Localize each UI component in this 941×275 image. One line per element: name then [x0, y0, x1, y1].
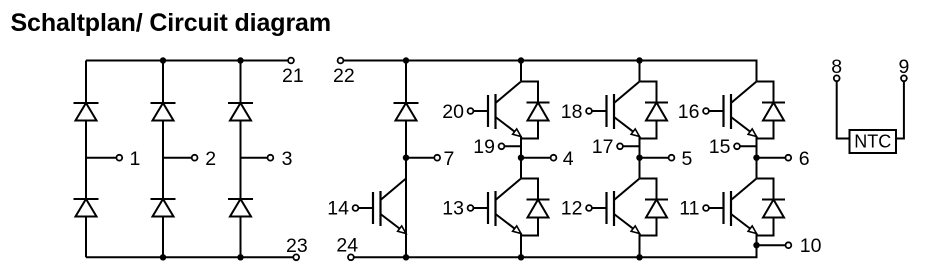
wire node 1 stub [86, 157, 116, 159]
diode D11 (antiparallel) [645, 199, 668, 201]
transistor Q4 (bottom, gate 12) emitter lead with arrow [614, 214, 640, 234]
wire terminal 8 to NTC [837, 81, 850, 138]
junction leg 5 on top bus [636, 57, 642, 63]
transistor Q2 (bottom, gate 13) emitter lead with arrow [496, 214, 522, 234]
svg-text:2: 2 [205, 148, 216, 170]
svg-text:Schaltplan/ Circuit diagram: Schaltplan/ Circuit diagram [11, 9, 331, 37]
terminal 22 [338, 58, 344, 64]
transistor Q6 (bottom, gate 11) gate terminal [703, 205, 709, 211]
wire leg 6 collector drop from top bus [756, 61, 758, 82]
wire aux emitter 15 stub [740, 145, 757, 147]
wire diode D9 anode to emitter jog [521, 218, 538, 236]
NTC thermistor box [850, 130, 897, 153]
terminal node 7 circle [434, 155, 440, 161]
diode D5 (rectifier top, leg 3) [228, 102, 253, 104]
wire collector jog to diode D9 [521, 179, 538, 201]
transistor Q2 (bottom, gate 13) gate terminal [468, 205, 474, 211]
svg-text:18: 18 [561, 101, 583, 123]
wire collector vertical bottom cell leg 5 [639, 158, 641, 178]
junction node 10 [753, 242, 759, 248]
wire collector jog to diode D12 [757, 82, 774, 104]
junction leg 4 on top bus [518, 57, 524, 63]
transistor Q3 (top, gate 18) collector lead [614, 82, 640, 104]
wire collector jog to diode D10 [640, 82, 657, 104]
wire collector jog to diode D13 [757, 179, 774, 201]
wire terminal 9 to NTC [896, 81, 904, 138]
transistor Q2 (bottom, gate 13) gate lead wire [473, 207, 488, 209]
terminal node 10 circle [786, 242, 792, 248]
transistor Q7 (brake, pin 14) gate bar [372, 192, 374, 224]
terminal node 1 circle [116, 155, 122, 161]
transistor Q7 (brake, pin 14) emitter lead with arrow [381, 214, 407, 234]
transistor Q6 (bottom, gate 11) collector lead [731, 179, 757, 201]
junction on top bus leg 2 [160, 57, 166, 63]
svg-text:22: 22 [333, 65, 355, 87]
wire emitter vertical top cell leg 6 [756, 136, 758, 158]
transistor Q4 (bottom, gate 12) gate bar [605, 192, 607, 224]
svg-text:16: 16 [678, 101, 700, 123]
diode D10 (antiparallel) [645, 102, 668, 104]
wire aux emitter 17 stub [623, 145, 640, 147]
junction leg 4 on bottom bus [518, 254, 524, 260]
diode D12 (antiparallel) [762, 102, 785, 104]
svg-text:21: 21 [282, 65, 304, 87]
transistor Q7 (brake, pin 14) gate terminal [353, 205, 359, 211]
wire node 4 stub [521, 157, 551, 159]
wire inverter top bus (DC+) [343, 61, 756, 82]
wire rectifier top bus (+ to terminal 21) [86, 60, 288, 62]
transistor Q3 (top, gate 18) gate terminal [586, 108, 592, 114]
transistor Q1 (top, gate 20) body bar [494, 94, 496, 129]
diode D1 (rectifier top, leg 1) [74, 102, 99, 104]
svg-text:23: 23 [286, 235, 308, 257]
terminal aux emitter 17 circle [617, 143, 623, 149]
transistor Q6 (bottom, gate 11) gate bar [722, 192, 724, 224]
svg-text:5: 5 [682, 148, 693, 170]
wire node 10 stub [757, 244, 786, 246]
wire brake leg vertical [405, 61, 407, 258]
svg-text:8: 8 [831, 56, 842, 78]
junction on bottom bus leg 2 [160, 254, 166, 260]
wire collector vertical bottom cell leg 4 [520, 158, 522, 178]
transistor Q3 (top, gate 18) emitter lead with arrow [614, 117, 640, 137]
terminal 23 [293, 254, 299, 260]
svg-text:11: 11 [679, 198, 699, 220]
transistor Q2 (bottom, gate 13) collector lead [496, 179, 522, 201]
svg-text:6: 6 [799, 148, 810, 170]
svg-text:13: 13 [442, 198, 464, 220]
transistor Q5 (top, gate 16) gate bar [722, 95, 724, 127]
junction node 5 [636, 155, 642, 161]
diode D2 (rectifier bottom, leg 1) [74, 198, 99, 200]
diode D8 (antiparallel) [527, 102, 550, 104]
wire inverter bottom bus (DC-) [354, 245, 757, 257]
svg-text:17: 17 [592, 136, 614, 158]
wire collector jog to diode D8 [521, 82, 538, 104]
transistor Q4 (bottom, gate 12) gate lead wire [592, 207, 607, 209]
diode D13 (antiparallel) [762, 199, 785, 201]
svg-text:9: 9 [898, 56, 909, 78]
terminal aux emitter 15 circle [734, 143, 740, 149]
wire collector jog to diode D11 [640, 179, 657, 201]
terminal 24 [348, 254, 354, 260]
wire diode D12 anode to emitter jog [757, 121, 774, 139]
transistor Q3 (top, gate 18) body bar [613, 94, 615, 129]
wire diode D8 anode to emitter jog [521, 121, 538, 139]
wire node 2 stub [163, 157, 192, 159]
transistor Q4 (bottom, gate 12) collector lead [614, 179, 640, 201]
svg-text:7: 7 [444, 148, 455, 170]
wire diode D11 anode to emitter jog [640, 218, 657, 236]
svg-text:NTC: NTC [854, 132, 891, 152]
svg-text:3: 3 [282, 148, 293, 170]
svg-text:20: 20 [442, 101, 464, 123]
transistor Q1 (top, gate 20) gate terminal [468, 108, 474, 114]
transistor Q5 (top, gate 16) collector lead [731, 82, 757, 104]
transistor Q7 (brake, pin 14) collector lead [381, 179, 407, 201]
transistor Q1 (top, gate 20) gate lead wire [473, 110, 488, 112]
wire emitter vertical bottom cell leg 4 [520, 233, 522, 257]
diode D9 (antiparallel) [527, 199, 550, 201]
terminal node 2 circle [192, 155, 198, 161]
transistor Q5 (top, gate 16) body bar [730, 94, 732, 129]
transistor Q1 (top, gate 20) collector lead [496, 82, 522, 104]
diode D4 (rectifier bottom, leg 2) [151, 198, 176, 200]
junction node 7 [403, 155, 409, 161]
transistor Q5 (top, gate 16) emitter lead with arrow [731, 117, 757, 137]
wire node 6 stub [757, 157, 786, 159]
svg-text:24: 24 [336, 235, 358, 257]
transistor Q1 (top, gate 20) emitter lead with arrow [496, 117, 522, 137]
svg-text:12: 12 [561, 198, 583, 220]
transistor Q6 (bottom, gate 11) emitter lead with arrow [731, 214, 757, 234]
terminal node 3 circle [268, 155, 274, 161]
terminal node 6 circle [785, 155, 791, 161]
junction node 6 [753, 155, 759, 161]
transistor Q4 (bottom, gate 12) gate terminal [586, 205, 592, 211]
wire collector vertical bottom cell leg 6 [756, 158, 758, 178]
wire emitter vertical top cell leg 5 [639, 136, 641, 158]
transistor Q4 (bottom, gate 12) body bar [613, 191, 615, 226]
terminal aux emitter 19 circle [499, 143, 505, 149]
diode D7 (brake leg) [394, 102, 419, 104]
transistor Q5 (top, gate 16) gate lead wire [709, 110, 724, 112]
transistor Q6 (bottom, gate 11) gate lead wire [709, 207, 724, 209]
transistor Q7 (brake, pin 14) gate lead wire [358, 207, 373, 209]
terminal 9 [901, 75, 907, 81]
transistor Q2 (bottom, gate 13) body bar [494, 191, 496, 226]
wire node 7 stub [406, 157, 434, 159]
transistor Q3 (top, gate 18) gate bar [605, 95, 607, 127]
svg-text:15: 15 [709, 136, 731, 158]
wire leg 5 collector drop from top bus [639, 61, 641, 82]
junction node 4 [518, 155, 524, 161]
wire rectifier bottom bus (to terminal 23) [86, 256, 293, 258]
diode D3 (rectifier top, leg 2) [151, 102, 176, 104]
wire emitter vertical bottom cell leg 5 [639, 233, 641, 257]
wire emitter vertical bottom cell leg 6 [756, 233, 758, 257]
diode D6 (rectifier bottom, leg 3) [228, 198, 253, 200]
terminal node 4 circle [551, 155, 557, 161]
svg-text:4: 4 [563, 148, 574, 170]
junction on bottom bus leg 3 [237, 254, 243, 260]
junction brake leg on top bus [403, 57, 409, 63]
wire rectifier leg 2 vertical [162, 61, 164, 258]
terminal 21 [288, 58, 294, 64]
wire aux emitter 19 stub [504, 145, 521, 147]
terminal node 5 circle [669, 155, 675, 161]
terminal 8 [834, 75, 840, 81]
wire emitter vertical top cell leg 4 [520, 136, 522, 158]
transistor Q6 (bottom, gate 11) body bar [730, 191, 732, 226]
junction on top bus leg 3 [237, 57, 243, 63]
transistor Q3 (top, gate 18) gate lead wire [592, 110, 607, 112]
transistor Q2 (bottom, gate 13) gate bar [487, 192, 489, 224]
svg-text:14: 14 [327, 198, 349, 220]
svg-text:10: 10 [800, 235, 822, 257]
transistor Q5 (top, gate 16) gate terminal [703, 108, 709, 114]
transistor Q7 (brake, pin 14) body bar [379, 191, 381, 226]
transistor Q1 (top, gate 20) gate bar [487, 95, 489, 127]
wire rectifier leg 1 vertical [85, 61, 87, 258]
svg-text:1: 1 [130, 148, 141, 170]
wire node 5 stub [640, 157, 669, 159]
wire leg 4 collector drop from top bus [520, 61, 522, 82]
svg-text:19: 19 [473, 136, 495, 158]
wire rectifier leg 3 vertical [240, 61, 242, 258]
wire node 3 stub [241, 157, 268, 159]
wire diode D10 anode to emitter jog [640, 121, 657, 139]
junction brake leg on bottom bus [403, 254, 409, 260]
junction leg 5 on bottom bus [636, 254, 642, 260]
wire diode D13 anode to emitter jog [757, 218, 774, 236]
